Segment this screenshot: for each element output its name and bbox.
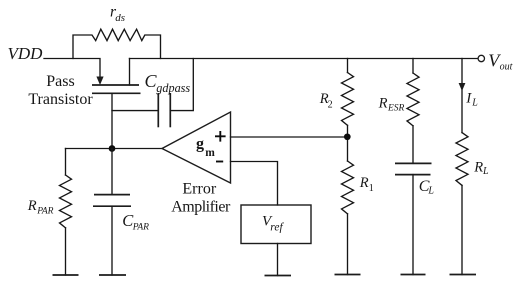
svg-text:L: L bbox=[427, 186, 434, 197]
svg-text:Amplifier: Amplifier bbox=[171, 198, 231, 215]
svg-text:2: 2 bbox=[328, 99, 333, 110]
svg-text:m: m bbox=[205, 147, 215, 159]
svg-text:1: 1 bbox=[369, 183, 374, 194]
svg-text:VDD: VDD bbox=[8, 44, 44, 63]
svg-text:R: R bbox=[359, 175, 369, 191]
svg-text:Transistor: Transistor bbox=[28, 91, 93, 108]
svg-text:ESR: ESR bbox=[387, 104, 405, 114]
svg-text:gdpass: gdpass bbox=[156, 81, 190, 95]
svg-text:out: out bbox=[500, 61, 513, 72]
svg-text:L: L bbox=[482, 166, 489, 177]
svg-text:Pass: Pass bbox=[46, 73, 74, 90]
svg-text:ds: ds bbox=[115, 12, 125, 24]
svg-text:L: L bbox=[471, 98, 478, 109]
svg-text:R: R bbox=[27, 198, 37, 214]
svg-text:g: g bbox=[196, 136, 204, 153]
svg-text:Error: Error bbox=[182, 180, 216, 197]
svg-text:I: I bbox=[465, 91, 472, 107]
svg-text:ref: ref bbox=[270, 222, 284, 234]
svg-text:PAR: PAR bbox=[36, 207, 53, 217]
svg-text:R: R bbox=[473, 159, 483, 175]
svg-text:R: R bbox=[378, 95, 388, 111]
svg-text:PAR: PAR bbox=[132, 223, 149, 233]
